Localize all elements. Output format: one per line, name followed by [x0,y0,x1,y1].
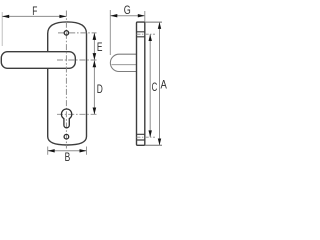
cylinder centerline [57,113,97,115]
svg-text:F: F [32,6,37,19]
grip neck faint edge [139,46,141,55]
dim D arrow up [93,60,97,67]
grip side view [110,54,136,71]
dim E arrow down [93,53,97,60]
bottom screw hole center ext [137,136,156,138]
dim B arrow right [80,149,87,152]
dim B arrow left [48,149,55,152]
bottom screw hole hidden lines [137,134,145,140]
handle centerline [57,59,97,61]
dim G arrow left [110,14,117,17]
dim B extension lines [48,147,87,155]
dim F arrow right [59,15,66,18]
dim C arrow up [149,34,152,41]
top screw hole hidden lines [137,32,145,37]
dim A top extension [145,21,162,23]
dim A bottom extension [145,144,162,146]
dim G extension line right [144,11,146,22]
dim A line [159,22,161,145]
dim G arrow right [138,14,145,17]
dim F line [2,15,66,17]
svg-text:E: E [97,42,103,55]
backplate front view [48,22,87,145]
dim C arrow down [149,130,152,137]
dim E arrow up [93,33,97,40]
svg-text:C: C [152,82,158,95]
plate side view [137,22,145,145]
dim F extension line left [1,12,3,46]
svg-text:A: A [161,79,168,92]
dim G line [110,15,145,17]
top screw hole [64,31,68,35]
dim A arrow down [158,139,161,146]
svg-text:B: B [65,152,71,165]
svg-text:D: D [97,84,103,97]
top screw hole center ext [137,33,156,35]
bottom screw hole [64,134,69,139]
dim A arrow up [158,22,161,29]
svg-text:G: G [124,4,131,18]
dim G extension line left [109,10,111,55]
dim D arrow down [93,108,97,115]
lever handle front view [1,52,75,69]
plate vertical centerline [65,11,67,149]
dim B line [48,150,87,152]
euro cylinder hole [61,109,71,128]
grip inner line [112,64,137,66]
dim C line [149,34,151,137]
dim F arrow left [2,15,9,18]
top screw hole centerline [58,32,97,34]
dim E/D line [93,33,95,115]
